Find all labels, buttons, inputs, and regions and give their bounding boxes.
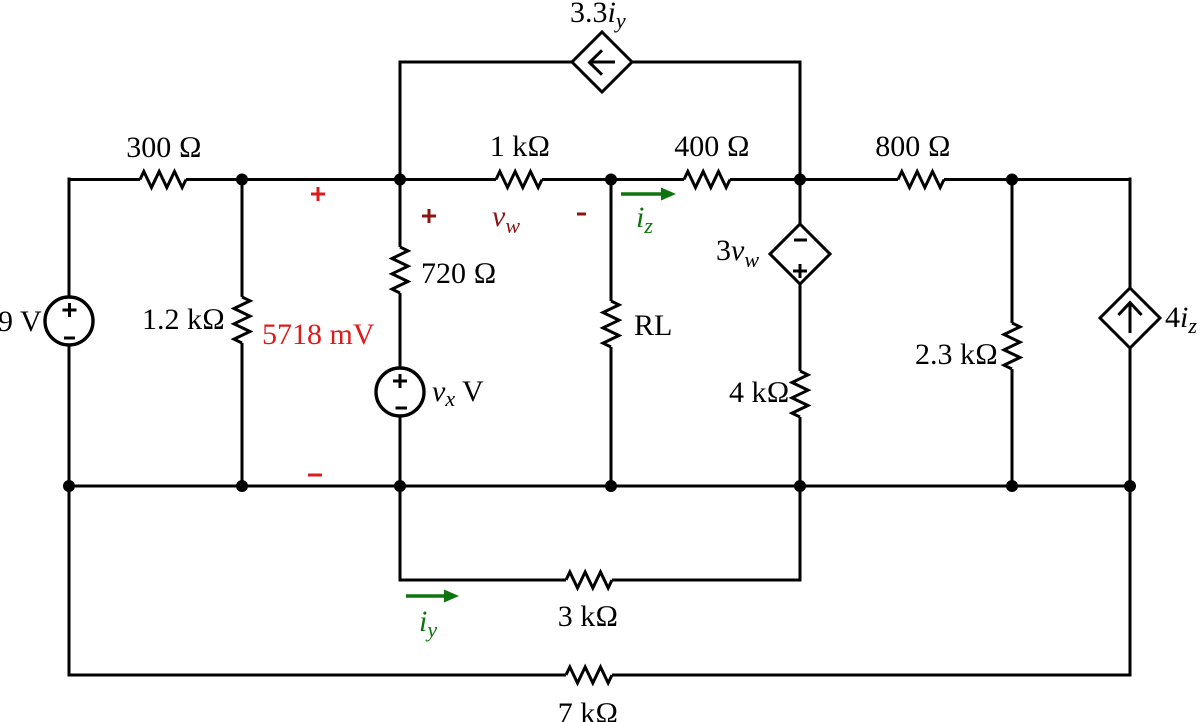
wire: branch x=1012 (2.3k) [1011,179,1014,486]
wire: main top horizontal bus y=179 [69,178,1130,181]
resistor RL mask [608,301,614,347]
wire: outer bottom bus y=675 [69,674,1130,677]
resistor R300 mask [140,177,186,183]
svg-text:1 kΩ: 1 kΩ [490,130,551,163]
node dot on top bus x=400 [394,174,406,186]
node dot on bottom bus x=800 [794,480,806,492]
wire: left vertical x=69 from top bus to outer bottom bus [68,178,71,677]
resistor 400ohm zigzag [684,172,730,188]
resistor R2.3k mask [1009,323,1015,369]
svg-text:720 Ω: 720 Ω [421,257,497,290]
wire: 3k loop below [400,486,800,580]
dependent source 3vw diamond [770,224,830,284]
resistor 3kohm zigzag [566,572,612,588]
svg-text:3 kΩ: 3 kΩ [558,600,619,633]
svg-text:3vw: 3vw [716,234,759,272]
resistor R4k mask [797,371,803,417]
source Vx minus sign [396,407,408,410]
resistor R7k mask [566,672,612,678]
svg-text:4 kΩ: 4 kΩ [729,376,790,409]
svg-text:3.3iy: 3.3iy [570,0,626,33]
resistor R800 mask [898,177,944,183]
resistor RL zigzag [603,301,619,347]
svg-text:4iz: 4iz [1165,301,1197,338]
dark red plus sign for vw [422,209,436,223]
resistor 720ohm zigzag [392,247,408,293]
dependent source 3.3iy left arrow [590,50,616,74]
source V1 plus sign [63,303,77,317]
svg-text:9 V: 9 V [0,305,42,338]
node dot on bottom bus x=611 [605,480,617,492]
node dot on bottom bus x=400 [394,480,406,492]
red minus sign near 1.2k bottom [308,474,322,477]
svg-text:iz: iz [636,201,653,238]
dependent source 3vw plus sign [793,264,807,278]
resistor R720 mask [397,247,403,293]
svg-text:iy: iy [419,605,437,642]
node dot on top bus x=242 [236,174,248,186]
resistor 7kohm zigzag [566,667,612,683]
svg-text:5718 mV: 5718 mV [262,318,375,351]
node dot on top bus x=611 [605,174,617,186]
svg-text:7 kΩ: 7 kΩ [558,697,619,722]
wire: branch x=800 (3vw + 4k) [799,179,802,486]
green current arrow iz [621,192,663,195]
resistor 1kohm zigzag [496,172,542,188]
source V1 9V circle [45,297,93,345]
green current arrow iy [406,594,446,597]
dependent source 3.3iy diamond [572,32,632,92]
node dot on bottom bus x=242 [236,480,248,492]
node dot on bottom bus x=1130 [1124,480,1136,492]
resistor 800ohm zigzag [898,172,944,188]
svg-text:vx V: vx V [432,375,484,411]
dependent source 4iz diamond [1100,288,1160,348]
red plus sign near 1.2k top [311,187,325,201]
wire: branch x=611 (RL) [610,179,613,486]
resistor 4kohm zigzag [792,371,808,417]
resistor 1.2kohm zigzag [234,297,250,343]
svg-text:1.2 kΩ: 1.2 kΩ [142,303,225,336]
wire: branch x=400 (720 + vx) [399,179,402,486]
wire: top loop through 3.3iy source [400,62,800,179]
svg-text:RL: RL [634,309,672,342]
svg-text:300 Ω: 300 Ω [126,131,202,164]
node dot on top bus x=1012 [1006,174,1018,186]
resistor R3k mask [566,577,612,583]
dependent source 4iz up arrow [1118,303,1141,333]
resistor R1.2k mask [239,297,245,343]
resistor 300ohm zigzag [140,172,186,188]
resistor R400 mask [684,177,730,183]
node dot on top bus x=800 [794,174,806,186]
svg-text:400 Ω: 400 Ω [674,130,750,163]
source Vx circle [376,368,424,416]
wire: right vertical x=1130 [1129,178,1132,677]
svg-text:800 Ω: 800 Ω [875,130,951,163]
wire: branch x=242 (1.2k) [241,179,244,486]
dependent source 3vw minus sign [794,239,807,242]
node dot on bottom bus x=69 [63,480,75,492]
node dot on bottom bus x=1012 [1006,480,1018,492]
source V1 minus sign [64,337,75,340]
svg-text:vw: vw [492,200,520,238]
dark red minus sign for vw [577,213,586,216]
resistor 2.3kohm zigzag [1004,323,1020,369]
svg-text:2.3 kΩ: 2.3 kΩ [915,338,998,371]
wire: middle bottom bus y=486 [69,485,1130,488]
resistor R1k mask [496,177,542,183]
source Vx plus sign [393,374,407,388]
